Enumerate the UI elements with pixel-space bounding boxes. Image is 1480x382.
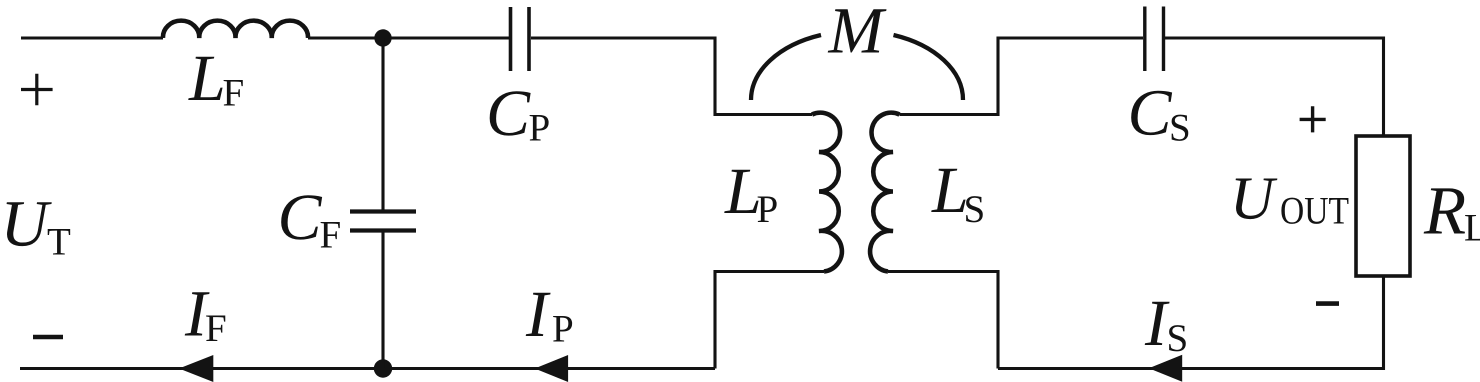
inductor LS secondary coil xyxy=(870,113,899,272)
minus sign load xyxy=(1316,301,1339,306)
node B junction dot bottom xyxy=(374,359,392,377)
svg-text:L: L xyxy=(188,42,226,115)
current arrow IF xyxy=(179,355,213,382)
svg-text:F: F xyxy=(223,72,245,115)
svg-text:C: C xyxy=(1128,77,1173,150)
svg-text:P: P xyxy=(552,308,574,351)
wire bottom-left rail xyxy=(20,367,715,370)
wire from CP to primary loop corner xyxy=(531,38,812,115)
minus sign source xyxy=(33,335,63,340)
capacitor CP xyxy=(511,7,530,71)
capacitor CF xyxy=(350,212,416,231)
wire load bottom xyxy=(998,276,1384,369)
svg-text:F: F xyxy=(320,214,342,257)
svg-text:S: S xyxy=(1167,317,1189,360)
mutual coupling arc right xyxy=(894,35,964,100)
svg-text:C: C xyxy=(486,77,531,150)
svg-text:M: M xyxy=(828,0,888,68)
svg-text:R: R xyxy=(1423,173,1466,249)
svg-text:U: U xyxy=(1,188,53,261)
wire from LF through node A to CP xyxy=(308,36,509,39)
svg-text:I: I xyxy=(525,278,551,351)
mutual coupling arc left xyxy=(751,35,821,100)
wire CS to load top xyxy=(1165,38,1384,136)
svg-text:U: U xyxy=(1230,166,1278,233)
svg-text:S: S xyxy=(964,188,986,231)
plus sign source xyxy=(21,74,53,106)
svg-text:P: P xyxy=(757,188,779,231)
inductor LF xyxy=(163,21,308,38)
wire secondary bottom xyxy=(888,272,998,369)
node A junction dot top xyxy=(374,29,391,46)
wire CF column bottom xyxy=(381,231,384,369)
plus sign load xyxy=(1300,106,1326,132)
svg-text:F: F xyxy=(205,307,227,350)
capacitor CS xyxy=(1145,7,1164,72)
svg-text:T: T xyxy=(47,221,71,264)
svg-text:P: P xyxy=(529,107,551,150)
wire secondary top to CS xyxy=(900,38,1144,115)
current arrow IP xyxy=(535,355,568,382)
wire primary bottom return xyxy=(715,272,824,369)
current arrow IS xyxy=(1149,355,1182,382)
svg-text:C: C xyxy=(278,181,323,254)
svg-text:OUT: OUT xyxy=(1280,190,1349,233)
wire CF column top xyxy=(381,38,384,211)
svg-text:L: L xyxy=(1464,207,1480,250)
wire top-left rail from source to inductor xyxy=(21,36,163,39)
svg-text:S: S xyxy=(1169,107,1191,150)
resistor RL box xyxy=(1356,136,1410,276)
inductor LP primary coil xyxy=(812,113,842,272)
